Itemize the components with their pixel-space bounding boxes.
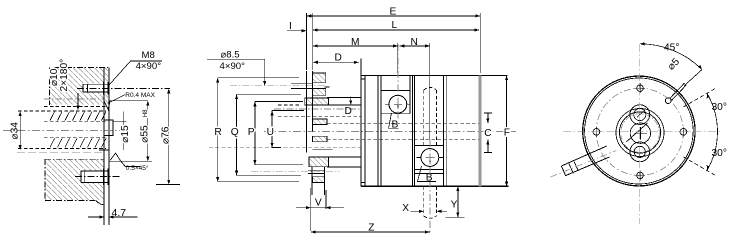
lower hole centerline gray bbox=[251, 171, 340, 173]
45 deg dim arc bbox=[640, 42, 702, 69]
top clamp screw circle bbox=[630, 105, 650, 125]
hub upper block border phantom bbox=[55, 66, 108, 68]
svg-text:I: I bbox=[289, 21, 292, 32]
bolt hole S bbox=[637, 172, 644, 179]
hub circle outer bbox=[616, 109, 664, 157]
axis middle view bbox=[264, 130, 516, 132]
band 1 slashes bbox=[50, 112, 106, 121]
hub step centerline gray bbox=[274, 108, 361, 110]
bottom clamp screw circle bbox=[630, 142, 650, 162]
30 deg upper dashed radial bbox=[683, 88, 716, 107]
bolt circle bbox=[596, 88, 683, 175]
bottom screw hidden walls below body bbox=[424, 186, 437, 216]
dim F bbox=[505, 75, 508, 186]
bottom screw side ticks bbox=[416, 157, 443, 159]
M8 hole centerline to dim Ø76 ext bbox=[77, 87, 170, 89]
svg-text:2×180°: 2×180° bbox=[59, 59, 70, 92]
protruding screw axis bbox=[551, 151, 617, 178]
svg-text:M8: M8 bbox=[142, 50, 155, 61]
svg-text:F: F bbox=[504, 128, 510, 139]
M8 hole lines bbox=[83, 84, 108, 92]
dim V bbox=[296, 188, 344, 231]
chamfer mark 0.5x45 bbox=[110, 153, 140, 166]
svg-text:M: M bbox=[351, 37, 360, 48]
svg-text:4.7: 4.7 bbox=[112, 207, 127, 219]
dim D top bbox=[313, 61, 359, 64]
lower screw hole white mask bbox=[81, 170, 104, 182]
lower block bottom arc to plate bbox=[96, 201, 104, 205]
svg-text:Q: Q bbox=[231, 127, 239, 138]
Ø5 drill tube lines bbox=[670, 83, 687, 100]
dim 4.7 bbox=[88, 215, 138, 218]
body left chamfer bbox=[361, 79, 365, 183]
dim I bbox=[287, 29, 307, 32]
bottom clamp screw inner bbox=[634, 146, 645, 157]
flange hole edges bbox=[291, 83, 313, 88]
leader B bottom bbox=[418, 166, 437, 182]
bottom screw head bbox=[421, 149, 439, 167]
lower screw hole bars bbox=[81, 168, 108, 185]
bore hidden bottom edge bbox=[18, 147, 106, 149]
D tick tail bbox=[325, 86, 330, 88]
bottom screw tee bbox=[425, 157, 434, 162]
svg-text:U: U bbox=[267, 127, 274, 138]
hub bottom lines bbox=[327, 157, 361, 167]
lower screw hole lines bbox=[81, 171, 108, 182]
leader R0.4 bbox=[108, 95, 125, 104]
lower boss hatch bbox=[313, 177, 325, 183]
hub upper block left border bbox=[49, 67, 51, 105]
bottom screw pocket bbox=[414, 146, 443, 174]
leader Ø8.5 bbox=[207, 59, 265, 84]
keyway rect on plate bbox=[104, 120, 113, 135]
30 deg upper arc bbox=[707, 93, 718, 131]
dim Z bbox=[311, 230, 430, 233]
M8 hole white mask bbox=[83, 84, 108, 93]
top screw pocket bbox=[381, 75, 410, 113]
svg-text:⌀55: ⌀55 bbox=[140, 125, 151, 143]
band 1 bottom dashed bbox=[44, 120, 106, 122]
bolt hole NE 45 Ø5 bbox=[665, 98, 671, 104]
lower hole centerline bbox=[75, 176, 120, 178]
svg-text:45°: 45° bbox=[664, 43, 679, 54]
M8 hole bars bbox=[83, 82, 108, 94]
svg-text:D: D bbox=[335, 53, 342, 64]
stagger step line bbox=[312, 148, 332, 150]
svg-text:Y: Y bbox=[451, 199, 458, 210]
dim X bbox=[411, 210, 448, 213]
hub lower block border phantom bbox=[45, 159, 104, 200]
hidden bore lines hub bbox=[278, 104, 301, 106]
top screw side ticks bbox=[385, 103, 410, 105]
bar across plate bbox=[99, 149, 109, 151]
svg-text:⌀34: ⌀34 bbox=[10, 122, 21, 140]
flange plate front face bbox=[103, 67, 105, 225]
vertical centerline right view bbox=[639, 44, 641, 224]
dim Ø34 line bbox=[19, 111, 22, 149]
svg-text:0.5×45°: 0.5×45° bbox=[126, 164, 149, 172]
bolt hole S ticks bbox=[635, 170, 645, 180]
left view texts bbox=[10, 50, 172, 219]
svg-text:H8: H8 bbox=[143, 109, 149, 117]
30 deg lower dashed radial bbox=[683, 157, 716, 176]
flange plate rear face bbox=[108, 67, 110, 225]
body section line pair c bbox=[412, 75, 414, 186]
counterbore centerline gray bbox=[44, 98, 104, 100]
bottom clamp screw tick bbox=[639, 147, 641, 158]
hub upper wall hatch bbox=[305, 98, 329, 105]
dim U bbox=[271, 111, 305, 148]
bottom screw hidden tip arc bbox=[424, 216, 437, 218]
dim R bbox=[216, 78, 299, 182]
protruding screw body bbox=[561, 146, 609, 176]
center bore circle bbox=[630, 123, 650, 143]
band 2 top dashed bbox=[44, 137, 106, 139]
dim N bbox=[400, 44, 430, 47]
inner rim circle bbox=[585, 78, 694, 184]
right view texts bbox=[664, 43, 727, 160]
svg-text:R0.4 MAX: R0.4 MAX bbox=[125, 92, 155, 99]
dim C bbox=[484, 113, 492, 153]
svg-text:D: D bbox=[345, 106, 352, 117]
hidden key line bottom bbox=[327, 139, 479, 141]
svg-text:⌀15: ⌀15 bbox=[120, 125, 131, 143]
axis left view bbox=[3, 129, 122, 131]
svg-text:R: R bbox=[214, 127, 221, 138]
hub lower block left border bbox=[44, 159, 46, 200]
flange plate faces bbox=[307, 71, 313, 153]
lower hole edges bbox=[308, 170, 325, 173]
top clamp screw inner bbox=[634, 109, 646, 121]
lower boss sides bbox=[312, 167, 325, 195]
hub top line bbox=[327, 97, 361, 105]
svg-text:30°: 30° bbox=[712, 148, 727, 159]
hub thread band upper hatch bbox=[313, 119, 328, 125]
V relief groove bbox=[104, 101, 110, 110]
lower centerline gray bbox=[17, 151, 104, 153]
svg-text:L: L bbox=[392, 20, 398, 31]
dim E bbox=[307, 14, 481, 17]
svg-text:30°: 30° bbox=[712, 102, 727, 113]
svg-text:N: N bbox=[411, 37, 418, 48]
top screw centerline vertical bbox=[397, 44, 399, 120]
bolt hole N bbox=[637, 85, 644, 92]
leader M8 label bbox=[108, 61, 162, 86]
Ø55 top extension line bbox=[110, 100, 148, 102]
screw pitch circle bbox=[621, 114, 660, 153]
svg-text:C: C bbox=[484, 128, 491, 139]
hub circle inner bbox=[619, 112, 660, 153]
bolt hole E bbox=[680, 129, 687, 136]
svg-text:B: B bbox=[426, 173, 433, 184]
body outline bbox=[361, 75, 509, 186]
lower stagger centerline gray bbox=[209, 147, 361, 149]
dim Ø76 line and ext bbox=[156, 89, 180, 185]
30 deg lower arc bbox=[707, 132, 718, 170]
bolt hole W ticks bbox=[591, 127, 601, 137]
body section line pair d bbox=[443, 75, 446, 186]
dim D small inner bbox=[349, 97, 352, 106]
protruding screw head lines bbox=[569, 162, 578, 174]
bolt hole N ticks bbox=[635, 83, 645, 93]
top screw head bbox=[389, 95, 407, 113]
45 deg radial line bbox=[684, 70, 702, 86]
hub lower block hatched bbox=[45, 159, 104, 200]
top clamp screw tick bbox=[637, 110, 645, 117]
middle view texts bbox=[214, 7, 510, 234]
dim Q bbox=[235, 94, 301, 175]
dim Ø55 line bbox=[146, 101, 149, 162]
hub thread band lower hatch bbox=[313, 136, 328, 142]
flange boss upper hatch b bbox=[313, 89, 326, 96]
extension verticals top dims bbox=[307, 13, 481, 140]
bolt hole E ticks bbox=[678, 127, 688, 137]
svg-text:⌀8.5: ⌀8.5 bbox=[221, 50, 240, 61]
center cross ticks bbox=[634, 127, 647, 140]
svg-text:4×90°: 4×90° bbox=[220, 61, 246, 72]
horizontal centerline right view bbox=[563, 131, 722, 133]
hidden dashed below block bbox=[44, 106, 105, 108]
svg-text:X: X bbox=[402, 203, 409, 214]
svg-text:E: E bbox=[390, 7, 397, 18]
svg-text:4×90°: 4×90° bbox=[136, 61, 162, 72]
svg-text:B: B bbox=[392, 119, 399, 130]
body thick gray line bbox=[479, 75, 482, 186]
dim Ø15 line bbox=[123, 111, 125, 150]
hub lower wall hatch bbox=[309, 157, 329, 167]
bottom screw hidden walls in body bbox=[424, 87, 437, 145]
body section line pair b bbox=[378, 75, 381, 186]
svg-text:⌀76: ⌀76 bbox=[160, 126, 171, 144]
bottom screw centerline vertical bbox=[429, 140, 431, 232]
bore hidden top edge bbox=[18, 110, 106, 112]
flange boss upper hatch a bbox=[313, 73, 326, 83]
hub upper block hatched bbox=[50, 67, 109, 105]
body section line a bbox=[364, 75, 366, 186]
leader B top bbox=[389, 113, 399, 128]
outer circle bbox=[583, 76, 695, 186]
hidden key line top bbox=[327, 122, 479, 124]
dim P bbox=[253, 102, 303, 165]
top screw cross bbox=[394, 100, 402, 108]
svg-text:V: V bbox=[315, 198, 322, 209]
bolt hole W bbox=[593, 129, 600, 136]
svg-text:P: P bbox=[248, 127, 255, 138]
dim Ø10 leader arrow bbox=[76, 93, 79, 110]
center bore slash bbox=[626, 123, 647, 142]
dim Y bbox=[445, 186, 464, 217]
upper hole centerline gray bbox=[230, 85, 325, 87]
Ø55 bottom extension line bbox=[110, 160, 152, 162]
svg-text:Z: Z bbox=[368, 223, 374, 234]
band 2 slashes bbox=[50, 138, 106, 147]
keyway ext line bbox=[113, 120, 127, 122]
dim M bbox=[313, 44, 398, 47]
dim L bbox=[313, 28, 479, 31]
